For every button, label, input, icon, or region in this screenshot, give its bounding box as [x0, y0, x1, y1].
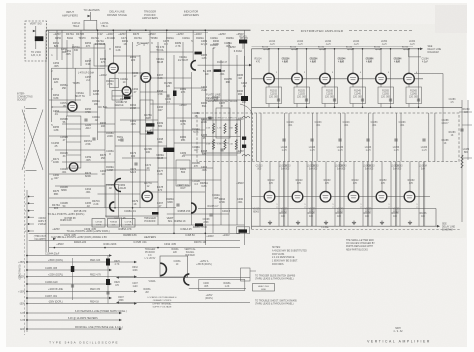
resistor R1082 termination lower	[235, 140, 237, 150]
wire h132	[98, 131, 141, 133]
component box R480A	[108, 219, 120, 228]
wire thermistor drop	[242, 44, 244, 49]
tube V484 indicator amplifier	[191, 61, 196, 71]
resistor R1001 input	[241, 96, 248, 101]
resistor R478	[146, 123, 154, 126]
junction	[173, 233, 175, 235]
pencil note 55 shunt	[136, 43, 148, 46]
wire h155	[183, 154, 237, 156]
wire vertical signal to delay line	[198, 208, 436, 210]
grid coil L1034	[319, 49, 325, 50]
wire h48	[49, 47, 105, 49]
capacitor C470	[134, 163, 137, 165]
resistor R1071	[242, 137, 246, 140]
tube V473 half envelope	[115, 179, 122, 192]
wire grid loop left	[51, 68, 53, 122]
wire h233 long	[29, 232, 240, 234]
wire +225V top bus	[46, 29, 251, 31]
wire h66	[100, 65, 113, 67]
arrow input	[33, 30, 36, 33]
wire pair column 6 in termination box	[396, 113, 398, 162]
ground lower 4	[352, 221, 356, 225]
wire feedback drop	[442, 74, 444, 162]
coil L1071 bottom	[242, 155, 250, 157]
tube V494 cathode follower	[184, 274, 189, 285]
tube V1024 6DK6	[292, 73, 303, 84]
wire decoupling col 72	[72, 258, 74, 300]
capacitor C481	[166, 95, 169, 97]
resistor R1070 termination upper	[212, 124, 214, 134]
wire h112	[55, 111, 98, 113]
terminal pin 6	[28, 230, 30, 232]
wire col 105	[104, 50, 106, 208]
wire col 73	[72, 44, 74, 68]
wire col 221	[220, 60, 222, 225]
terminal pin 3	[28, 210, 30, 212]
arrow into plate line	[249, 64, 252, 67]
resistor R486	[195, 52, 202, 55]
tube V463 pickoff follower	[110, 202, 115, 211]
wire V454A plate feed	[52, 106, 69, 108]
heater box	[84, 20, 97, 30]
delay line connector box	[237, 227, 250, 234]
ground lower 2	[296, 221, 300, 225]
wire col 97	[97, 30, 99, 140]
heat sink box	[253, 284, 275, 292]
wire right columns in box	[428, 113, 430, 162]
resistor R1090 output	[461, 155, 463, 168]
wire col 205	[204, 30, 206, 245]
wire grid loop top	[52, 67, 106, 69]
tube V483B vertical signal output	[191, 203, 196, 213]
wire plate feedback loop	[414, 73, 443, 75]
wire pair lower 5	[396, 162, 398, 227]
cathode box column 1	[266, 87, 282, 104]
lower column 5 wires	[371, 162, 373, 227]
bias network box	[94, 44, 105, 66]
junction	[114, 207, 116, 209]
wire h170	[105, 169, 150, 171]
wire h225	[60, 224, 245, 226]
wire h146	[115, 145, 167, 147]
arrow feed y270	[109, 269, 112, 272]
terminal y262	[26, 261, 28, 263]
tube V1063 6DK6	[404, 191, 415, 202]
junction	[54, 247, 56, 249]
coil L1070 top	[242, 117, 250, 119]
terminal pin 5	[28, 223, 30, 225]
wire cable bundle dashed	[23, 106, 25, 335]
resistor R488	[164, 148, 175, 152]
wire heater bus	[49, 32, 208, 34]
wire CF output	[189, 287, 246, 289]
tube V1054 6DK6	[376, 73, 387, 84]
grid coil L1054	[375, 49, 381, 50]
tube V1064 6DK6	[404, 73, 415, 84]
wire pair lower 3	[340, 162, 342, 227]
junction	[157, 247, 159, 249]
wire feed y291.4	[27, 290, 135, 292]
wire col 67	[66, 40, 68, 116]
wire left block edge inner	[48, 30, 50, 252]
distributed amp column 6 wires	[408, 49, 410, 74]
wire h240 long	[29, 240, 240, 242]
capacitor screen 3	[333, 99, 336, 101]
wire h120	[120, 119, 158, 121]
wire h247 long	[49, 247, 240, 249]
resistor R925 decoupling	[106, 259, 110, 266]
component box C470A	[92, 219, 105, 228]
arrow feed y284	[109, 283, 112, 286]
wire h162	[62, 161, 115, 163]
wire right stub 1	[459, 111, 472, 113]
arrow grid line to delay line	[437, 225, 440, 228]
terminal y270	[26, 269, 28, 271]
dashed box vertical signal input	[25, 21, 47, 61]
wire input box	[35, 26, 37, 49]
wire grid line bottom rail	[252, 225, 439, 227]
tube V1034 6DK6	[320, 73, 331, 84]
grid coil L1014	[263, 49, 269, 50]
tube V483A vertical signal CF	[142, 191, 152, 201]
wire h100b	[205, 99, 244, 101]
terminal y291.4	[26, 291, 28, 293]
cathode box column 3	[322, 87, 338, 104]
wire col 229	[228, 42, 230, 233]
wire feed y298	[27, 297, 110, 299]
terminal y303.5	[26, 303, 28, 305]
distributed amp column 4 wires	[352, 49, 354, 74]
capacitor C452	[84, 119, 87, 121]
wire cathode to rail 3	[324, 104, 326, 108]
lower column 2 wires	[287, 162, 289, 227]
ground lower 3	[324, 221, 328, 225]
wire h174	[49, 173, 98, 175]
terminal y320	[26, 319, 28, 321]
arrow to delay line	[420, 48, 423, 51]
resistor R493	[195, 223, 203, 226]
wire h158	[122, 157, 167, 159]
capacitor C491	[176, 204, 179, 206]
tube V1013 6DK6	[264, 191, 275, 202]
junction	[132, 207, 134, 209]
wire h56	[113, 55, 140, 57]
distributed amp column 2 wires	[296, 49, 298, 74]
wire h108	[105, 107, 140, 109]
capacitor plate line 4	[366, 139, 369, 141]
wire delay line drop	[435, 209, 437, 227]
wire cathode drop 4	[352, 84, 354, 87]
resistor R492	[152, 212, 159, 215]
junction	[104, 247, 106, 249]
dashed compartment divider	[252, 113, 254, 162]
wire left block edge outer	[45, 30, 47, 252]
wire h130	[150, 129, 205, 131]
capacitor plate line 3	[338, 139, 341, 141]
wire pair lower 1	[284, 162, 286, 227]
resistor R1072 termination upper	[235, 124, 237, 134]
wire feed y313	[27, 312, 120, 314]
resistor R1081 termination lower	[224, 140, 226, 150]
wire h198	[49, 197, 90, 199]
arrow heater	[88, 15, 91, 18]
grid network box	[216, 108, 230, 138]
terminal box left of notes	[241, 268, 251, 281]
wire h214	[167, 213, 229, 215]
junction	[205, 233, 207, 235]
cathode box V474	[110, 79, 119, 88]
arrow feed y298	[109, 297, 112, 300]
capacitor C485	[208, 117, 211, 119]
tube V454A input amplifier	[68, 102, 77, 111]
resistor R900 termination	[35, 36, 44, 41]
wire bottom dashed rail	[252, 228, 461, 230]
capacitor C1098	[209, 214, 212, 216]
wire col 57	[56, 30, 58, 60]
wire h150	[55, 149, 105, 151]
wire col 237	[236, 55, 238, 225]
wire h136	[49, 135, 90, 137]
distributed amp column 3 wires	[324, 49, 326, 74]
grid coil L1064	[403, 49, 409, 50]
wire pointer to network	[240, 104, 252, 113]
wire cathode to rail 2	[296, 104, 298, 108]
wire right edge bus2	[467, 100, 469, 160]
wire decoupling chain	[107, 256, 109, 304]
capacitor screen 6	[417, 99, 420, 101]
arrow feed y320	[119, 319, 122, 322]
wire to indicator switch	[118, 277, 250, 279]
tube V1053 6DK6	[376, 191, 387, 202]
wire col 183	[182, 42, 184, 140]
wire col 150	[149, 30, 151, 118]
wire V454A grid drop	[74, 68, 76, 101]
lower column 3 wires	[315, 162, 317, 227]
arrow feed y313	[119, 312, 122, 315]
tube V454B input amplifier	[69, 163, 77, 171]
divider ladder box	[66, 116, 81, 168]
component box C471A	[122, 219, 136, 228]
wire col 191	[190, 72, 192, 225]
capacitor plate line 1	[282, 139, 285, 141]
wire feed y276.7	[27, 276, 135, 278]
junction	[129, 29, 131, 31]
wire col 132	[132, 42, 134, 225]
wire stub from terminal box	[250, 270, 256, 272]
wire right edge bus	[461, 100, 463, 222]
terminal pin 2	[28, 202, 30, 204]
lower column 6 wires	[399, 162, 401, 227]
terminal y284	[26, 283, 28, 285]
wire h207 long	[49, 207, 176, 209]
wire col 126	[126, 30, 128, 86]
wire col 81	[80, 30, 82, 66]
wire col 140	[139, 55, 141, 208]
ground lower 6	[408, 221, 412, 225]
wire col 193 grid	[192, 30, 194, 60]
tube V1014 6DK6	[264, 73, 275, 84]
wire h100	[49, 99, 81, 101]
wire power strip vertical	[26, 190, 28, 332]
capacitor C455	[92, 138, 95, 140]
wire right stub 3	[462, 157, 472, 159]
wire col 62	[61, 30, 63, 60]
cathode box column 6	[406, 87, 422, 104]
wire col 145	[145, 82, 147, 190]
wire h182	[115, 181, 158, 183]
capacitor screen 2	[305, 99, 308, 101]
capacitor C1089	[460, 129, 463, 131]
arrow feed y303.5	[134, 302, 137, 305]
arrow feed y276.7	[134, 275, 137, 278]
lower column 1 wires	[259, 162, 261, 227]
arrow feed y262	[134, 261, 137, 264]
capacitor C458	[120, 139, 123, 141]
terminal y276.7	[26, 276, 28, 278]
resistor R1071 termination upper	[224, 124, 226, 134]
wire col 166	[166, 30, 168, 208]
wire cathode to rail 1	[268, 104, 270, 108]
pickoff network box	[140, 100, 153, 134]
terminal y313	[26, 312, 28, 314]
wire heater drop	[90, 12, 92, 20]
ground lower 1	[268, 221, 272, 225]
wire distributed amp left edge	[251, 49, 253, 230]
wire grid line lower row	[252, 196, 431, 198]
resistor R901 decoupling	[71, 266, 75, 272]
wire h216	[105, 215, 158, 217]
wire pair column 1 in termination box	[256, 113, 258, 162]
wire h118	[167, 117, 213, 119]
cathode box column 2	[294, 87, 310, 104]
distributed amp column 1 wires	[268, 49, 270, 74]
grid coil L1044	[347, 49, 353, 50]
wire feed y270	[27, 269, 110, 271]
cathode box column 4	[350, 87, 366, 104]
junction	[166, 29, 168, 31]
wire CF loop	[160, 256, 188, 277]
wire cathode drop 3	[324, 84, 326, 87]
wire feed y255.5	[27, 255, 110, 257]
wire cathode drop 6	[408, 84, 410, 87]
capacitor C902	[71, 285, 74, 287]
resistor R1072	[242, 145, 246, 148]
wire pair column 5 in termination box	[368, 113, 370, 162]
wire cathode drop 2	[296, 84, 298, 87]
capacitor plate line 5	[394, 139, 397, 141]
wire pair lower 6	[424, 162, 426, 227]
output network box 2	[176, 160, 190, 186]
wire h52	[150, 51, 193, 53]
wire h186	[55, 185, 105, 187]
wire pair column 2 in termination box	[284, 113, 286, 162]
wire h96	[112, 95, 133, 97]
tube V1023 6DK6	[292, 191, 303, 202]
wire plate line echo	[252, 45, 414, 47]
wire cathode drop 5	[380, 84, 382, 87]
wire h92	[140, 91, 167, 93]
arrow feed y255.5	[109, 254, 112, 257]
tube V474 delay-line driver	[108, 63, 118, 73]
wire col 174	[173, 55, 175, 233]
resistor R466	[124, 97, 131, 100]
wire grid line upper row	[252, 78, 424, 80]
wire delay line return v	[408, 49, 410, 57]
wire feed y262	[27, 261, 135, 263]
resistor R487	[214, 69, 221, 72]
arrow feed y291.4	[134, 290, 137, 293]
wire cathode to rail 5	[380, 104, 382, 108]
cathode box V464A	[112, 91, 123, 101]
resistor R479	[147, 132, 154, 135]
distributed amp column 5 wires	[380, 49, 382, 74]
wire feed y320	[27, 319, 120, 321]
wire delay line return h	[409, 56, 421, 58]
wire h168	[158, 167, 213, 169]
wire input to dist amp	[244, 56, 246, 96]
wire h78	[150, 77, 191, 79]
wire h143	[174, 142, 229, 144]
wire crossover bottom bar	[26, 170, 37, 172]
wire cathode drop 1	[268, 84, 270, 87]
terminal y329	[26, 328, 28, 330]
follower network box	[106, 185, 119, 218]
wire h124	[62, 123, 115, 125]
lower column 4 wires	[343, 162, 345, 227]
wire h194	[98, 193, 141, 195]
wire cathode to rail 6	[408, 104, 410, 108]
label distributed amplifier	[261, 30, 296, 32]
capacitor C486	[220, 149, 223, 151]
terminal y298	[26, 297, 28, 299]
wire h180	[167, 179, 221, 181]
capacitor screen 5	[389, 99, 392, 101]
capacitor C925	[106, 292, 109, 294]
arrow feed y329	[119, 328, 122, 331]
terminal y255.5	[26, 255, 28, 257]
junction	[113, 29, 115, 31]
resistor R1080 termination lower	[212, 140, 214, 150]
junction	[205, 29, 207, 31]
ground lower 5	[380, 221, 384, 225]
resistor R926 decoupling	[106, 279, 110, 285]
capacitor screen 4	[361, 99, 364, 101]
wire feed y329	[27, 328, 120, 330]
tube V1043 6DK6	[348, 191, 359, 202]
wire feed y284	[27, 283, 110, 285]
wire screen rail	[252, 106, 463, 108]
wire crossover top bar	[26, 108, 37, 110]
resistor R1093	[173, 91, 177, 97]
wire to through panel	[118, 302, 250, 304]
tube V464A	[122, 87, 131, 96]
wire h104	[150, 103, 191, 105]
output network box	[199, 279, 245, 290]
wire plate line top rail	[252, 48, 422, 50]
capacitor plate line 2	[310, 139, 313, 141]
tube V464B trigger pickoff	[141, 73, 151, 83]
terminal pin 1	[28, 196, 30, 198]
junction	[97, 29, 99, 31]
wire feed y303.5	[27, 303, 135, 305]
tube V1033 6DK6	[320, 191, 331, 202]
wire pair column 3 in termination box	[312, 113, 314, 162]
resistor R498 grid stopper	[239, 229, 248, 232]
tube V1044 6DK6	[348, 73, 359, 84]
capacitor plate line 6	[422, 139, 425, 141]
grid coil L1024	[291, 49, 297, 50]
wire h73	[118, 72, 146, 74]
